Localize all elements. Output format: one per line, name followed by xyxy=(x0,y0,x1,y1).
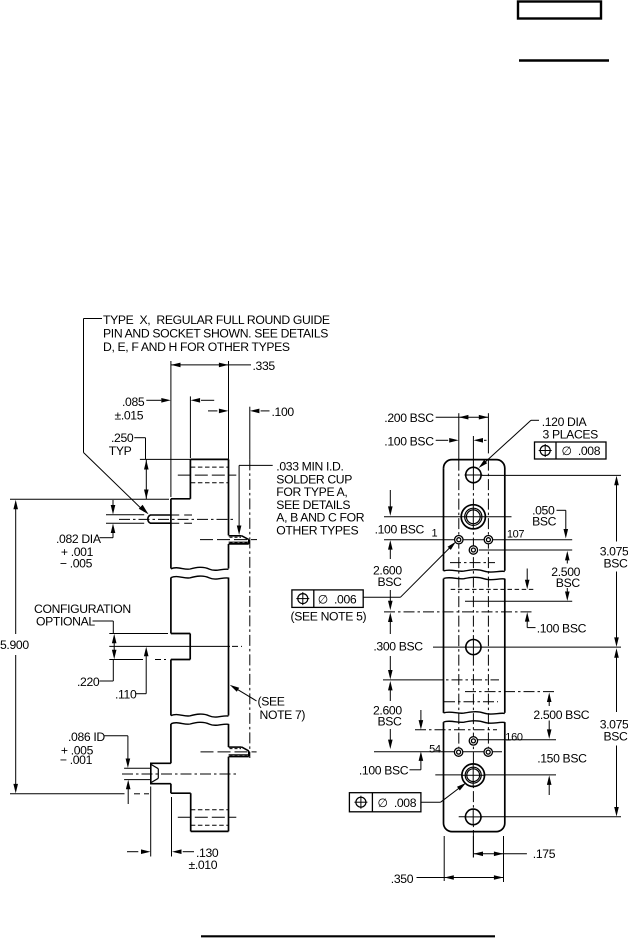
svg-text:.300 BSC: .300 BSC xyxy=(373,640,423,654)
svg-text:BSC: BSC xyxy=(604,556,628,570)
svg-text:(SEE NOTE 5): (SEE NOTE 5) xyxy=(291,609,367,623)
svg-text:∅ .008: ∅ .008 xyxy=(562,444,601,458)
svg-text:(SEE: (SEE xyxy=(258,695,285,709)
svg-text:.082 DIA: .082 DIA xyxy=(56,532,102,546)
svg-text:5.900: 5.900 xyxy=(0,638,29,652)
svg-text:BSC: BSC xyxy=(556,576,581,590)
svg-text:.335: .335 xyxy=(253,359,276,373)
svg-text:107: 107 xyxy=(507,528,525,540)
svg-text:BSC: BSC xyxy=(532,515,557,529)
svg-text:160: 160 xyxy=(505,731,523,743)
svg-text:.200 BSC: .200 BSC xyxy=(384,411,434,425)
svg-text:.100 BSC: .100 BSC xyxy=(375,523,425,537)
svg-text:− .005: − .005 xyxy=(60,557,93,571)
svg-text:TYP: TYP xyxy=(109,444,132,458)
svg-text:±.010: ±.010 xyxy=(189,858,218,872)
svg-text:∅ .006: ∅ .006 xyxy=(318,592,357,606)
svg-text:− .001: − .001 xyxy=(60,753,93,767)
svg-text:.220: .220 xyxy=(77,675,100,689)
svg-text:OPTIONAL: OPTIONAL xyxy=(36,615,95,629)
svg-text:.100 BSC: .100 BSC xyxy=(384,434,434,448)
svg-text:D, E, F AND H FOR OTHER TYPES: D, E, F AND H FOR OTHER TYPES xyxy=(103,340,290,354)
svg-text:.175: .175 xyxy=(533,847,556,861)
svg-text:.100 BSC: .100 BSC xyxy=(359,764,409,778)
svg-text:NOTE 7): NOTE 7) xyxy=(260,708,306,722)
svg-text:.086 ID: .086 ID xyxy=(68,730,105,744)
svg-text:BSC: BSC xyxy=(604,730,628,744)
svg-text:3 PLACES: 3 PLACES xyxy=(543,428,599,442)
svg-text:54: 54 xyxy=(429,744,441,756)
svg-text:.085: .085 xyxy=(122,395,145,409)
svg-text:OTHER TYPES: OTHER TYPES xyxy=(276,523,358,537)
svg-text:2.500 BSC: 2.500 BSC xyxy=(533,708,589,722)
svg-text:∅ .008: ∅ .008 xyxy=(378,796,417,810)
svg-text:BSC: BSC xyxy=(378,575,403,589)
svg-text:PIN AND SOCKET SHOWN. SEE DETA: PIN AND SOCKET SHOWN. SEE DETAILS xyxy=(103,327,328,341)
svg-text:.100: .100 xyxy=(272,405,295,419)
svg-text:.150 BSC: .150 BSC xyxy=(537,752,587,766)
svg-text:.110: .110 xyxy=(115,688,137,702)
svg-text:TYPE X, REGULAR FULL ROUND G: TYPE X, REGULAR FULL ROUND GUIDE xyxy=(103,313,330,327)
svg-text:.100 BSC: .100 BSC xyxy=(537,621,587,635)
svg-text:1: 1 xyxy=(432,527,438,539)
svg-text:BSC: BSC xyxy=(378,715,403,729)
svg-text:.350: .350 xyxy=(391,872,414,886)
svg-text:±.015: ±.015 xyxy=(115,408,144,422)
